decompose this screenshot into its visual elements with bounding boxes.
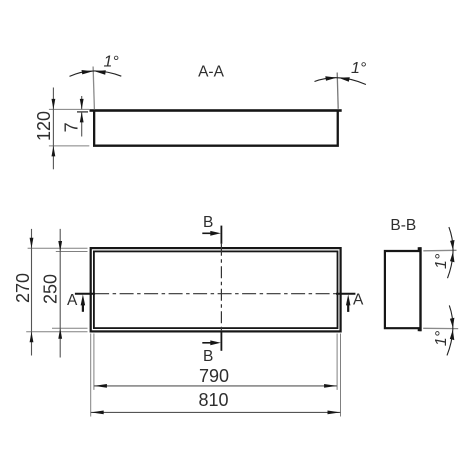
left 1-degree angle arc [70, 71, 122, 76]
dimension 250 arrow top [58, 241, 62, 252]
left 1-degree arc arrowhead right [95, 70, 106, 75]
dimension 7 line upper [81, 96, 83, 109]
right 1-degree arc arrowhead left [325, 76, 337, 81]
front view outer rectangle 810x270 [91, 248, 341, 331]
dimension 810 extension line right [340, 334, 342, 417]
front view inner rectangle 790x250 [94, 251, 338, 328]
svg-text:A: A [67, 292, 78, 309]
left 1-degree tilt reference line [93, 67, 94, 110]
dimension 7 line lower [81, 112, 83, 137]
dimension 270 arrow top [30, 238, 34, 249]
dimension 810 extension line left [90, 334, 92, 417]
right 1-degree angle arc [315, 78, 366, 85]
dimension 120 arrow top [52, 99, 56, 110]
svg-text:B: B [203, 214, 213, 231]
svg-text:A: A [353, 292, 364, 309]
svg-text:1°: 1° [351, 60, 367, 77]
dimension 790 arrow left [94, 384, 107, 388]
right 1-degree tilt reference line [337, 73, 338, 109]
side view A-A body outline [94, 111, 338, 146]
dimension 790 extension line left [93, 334, 95, 390]
section view B-B outline [385, 251, 421, 328]
B-B top 1-degree angle arc [448, 227, 454, 278]
dimension 120 extension line top [49, 108, 89, 110]
dimension 250 line [59, 229, 61, 358]
dimension 7 extension tick [77, 111, 88, 113]
dimension 270 extension line top [28, 247, 88, 249]
dimension 120 line [52, 88, 54, 170]
svg-text:1°: 1° [104, 54, 120, 71]
B-B top 1-degree arc arrowhead upper [450, 240, 454, 250]
dimension 810 arrow right [328, 411, 341, 415]
horizontal centerline dash-dot [95, 293, 336, 295]
svg-text:1°: 1° [433, 253, 450, 269]
dimension 250 arrow bottom [58, 328, 62, 339]
dimension 120 arrow bottom [52, 146, 56, 157]
cut arrow A right [347, 303, 349, 312]
B-B bottom 1-degree tilt reference line [423, 327, 458, 329]
svg-text:810: 810 [198, 390, 228, 410]
section view B-B rim bar [419, 247, 421, 331]
svg-text:B: B [203, 348, 213, 365]
section view B-B rim lip bottom [418, 328, 422, 331]
dimension 790 line [94, 385, 337, 387]
svg-text:790: 790 [199, 366, 229, 386]
dimension 7 arrow bottom [80, 112, 84, 123]
section view B-B rim lip top [418, 247, 422, 250]
B-B top 1-degree arc arrowhead lower [450, 252, 455, 262]
svg-text:250: 250 [40, 274, 60, 304]
svg-text:7: 7 [62, 122, 82, 132]
dimension 250 extension line bottom [52, 327, 88, 329]
B-B bottom 1-degree arc arrowhead lower [450, 330, 455, 340]
dimension 270 arrow bottom [30, 332, 34, 343]
dimension 810 arrow left [91, 411, 104, 415]
cut arrow A left [82, 303, 84, 312]
svg-text:270: 270 [13, 273, 33, 303]
svg-text:A-A: A-A [198, 64, 225, 81]
side view A-A top rim bar [90, 109, 342, 112]
dimension 120 extension line bottom [49, 145, 89, 147]
dimension 250 extension line top [56, 251, 88, 253]
svg-text:B-B: B-B [390, 217, 416, 234]
B-B cut vertical thick segment bottom [220, 332, 222, 351]
B-B top 1-degree tilt reference line [423, 249, 456, 252]
svg-text:1°: 1° [433, 330, 450, 346]
dimension 270 extension line bottom [26, 331, 87, 333]
dimension 810 line [91, 411, 341, 413]
cut line A right segment [336, 293, 355, 295]
right 1-degree arc arrowhead right [339, 77, 350, 82]
B-B bottom 1-degree angle arc [447, 305, 453, 355]
dimension 790 arrow right [324, 384, 337, 388]
B-B cut vertical thick segment top [220, 226, 222, 244]
cut arrow B bottom [202, 342, 212, 344]
B-B cut vertical dash-dot line [220, 244, 222, 332]
cut arrow B top [202, 232, 212, 234]
svg-text:120: 120 [34, 111, 54, 141]
cut line A left segment [75, 293, 95, 295]
left 1-degree arc arrowhead left [82, 70, 94, 74]
dimension 790 extension line right [336, 334, 338, 390]
B-B bottom 1-degree arc arrowhead upper [450, 318, 455, 328]
dimension 270 line [31, 229, 33, 356]
dimension 7 arrow top [80, 99, 84, 110]
